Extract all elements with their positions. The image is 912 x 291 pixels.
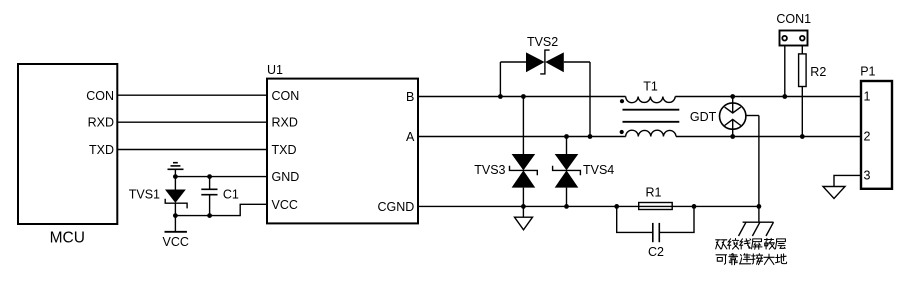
wire net A left segment xyxy=(418,136,626,138)
junction C1 top xyxy=(207,174,212,179)
TVS1 diode xyxy=(165,177,187,216)
svg-text:C1: C1 xyxy=(223,187,239,201)
svg-text:TXD: TXD xyxy=(89,143,114,157)
ground symbol under TVS3 xyxy=(515,206,533,229)
note text line 1 (drawn CJK strokes) xyxy=(716,238,786,249)
junction CON1 on B xyxy=(782,94,787,99)
capacitor C1 xyxy=(201,177,217,216)
junction TVS3 bottom on CGND xyxy=(521,204,526,209)
svg-text:MCU: MCU xyxy=(50,230,85,247)
svg-text:TVS4: TVS4 xyxy=(583,163,614,177)
TVS4 bidirectional diode xyxy=(553,137,581,207)
wire net A right segment xyxy=(676,136,861,138)
wire R2 to A xyxy=(801,87,803,137)
svg-text:RXD: RXD xyxy=(272,116,298,130)
wire CON1 pin1 to B xyxy=(784,46,786,97)
TVS2 bidirectional diode xyxy=(500,50,590,136)
junction C1 bottom xyxy=(207,213,212,218)
shield earth symbol xyxy=(739,206,774,236)
gas discharge tube GDT xyxy=(720,97,759,207)
wire net CGND xyxy=(418,205,759,207)
svg-text:P1: P1 xyxy=(860,64,875,78)
capacitor C2 xyxy=(617,206,694,242)
note text line 2 (drawn CJK strokes) xyxy=(716,254,787,265)
wire net B left segment xyxy=(418,96,626,98)
svg-text:1: 1 xyxy=(864,90,871,104)
svg-text:TVS2: TVS2 xyxy=(527,35,558,49)
resistor R2 xyxy=(799,54,807,87)
junction GDT bottom on A xyxy=(730,134,735,139)
svg-text:CON1: CON1 xyxy=(776,12,811,26)
wire GND from U1 to TVS1/C1 node xyxy=(175,176,267,178)
ground symbol at P1 pin3 xyxy=(823,187,845,199)
svg-text:U1: U1 xyxy=(267,63,283,77)
svg-text:CON: CON xyxy=(272,89,300,103)
MCU block xyxy=(18,64,117,247)
wire TXD MCU-U1 xyxy=(117,149,267,151)
junction shield earth node xyxy=(757,204,762,209)
svg-text:TVS1: TVS1 xyxy=(129,187,160,201)
junction TVS3 top on B xyxy=(521,94,526,99)
svg-text:TXD: TXD xyxy=(272,143,297,157)
svg-text:VCC: VCC xyxy=(162,235,188,249)
svg-text:TVS3: TVS3 xyxy=(474,163,505,177)
junction TVS1 bottom node xyxy=(173,213,178,218)
connector P1 xyxy=(860,64,892,188)
junction R1 right xyxy=(692,204,697,209)
junction TVS2 left on B xyxy=(498,94,503,99)
svg-text:R2: R2 xyxy=(810,65,826,79)
svg-text:GND: GND xyxy=(272,170,300,184)
svg-text:2: 2 xyxy=(864,130,871,144)
wire VCC bottom rail xyxy=(175,204,267,215)
TVS3 bidirectional diode xyxy=(510,97,538,207)
junction R2 on A xyxy=(800,134,805,139)
junction R1 left xyxy=(614,204,619,209)
wire CON1 pin2 to R2 xyxy=(801,46,803,54)
junction TVS1 top node xyxy=(173,174,178,179)
svg-text:GDT: GDT xyxy=(690,110,717,124)
svg-text:T1: T1 xyxy=(643,80,658,94)
transformer T1 xyxy=(620,80,680,137)
svg-text:CGND: CGND xyxy=(377,200,414,214)
junction TVS2 right on A xyxy=(588,134,593,139)
svg-text:VCC: VCC xyxy=(272,198,298,212)
junction TVS4 top on A xyxy=(564,134,569,139)
svg-text:B: B xyxy=(406,90,414,104)
svg-text:CON: CON xyxy=(86,89,114,103)
wire P1 pin3 to ground xyxy=(834,175,861,186)
IC U1 transceiver block xyxy=(267,63,418,223)
svg-text:R1: R1 xyxy=(646,186,662,200)
svg-text:3: 3 xyxy=(864,169,871,183)
svg-text:C2: C2 xyxy=(648,245,664,259)
earth ground symbol above TVS1 xyxy=(168,163,184,177)
junction TVS4 bottom on CGND xyxy=(564,204,569,209)
connector CON1 xyxy=(780,31,808,46)
wire CON MCU-U1 xyxy=(117,94,267,96)
power VCC symbol xyxy=(162,216,188,249)
wire net B right segment xyxy=(675,96,861,98)
wire RXD MCU-U1 xyxy=(117,121,267,123)
svg-text:A: A xyxy=(406,130,415,144)
junction GDT top on B xyxy=(730,94,735,99)
svg-text:RXD: RXD xyxy=(88,116,114,130)
resistor R1 xyxy=(639,203,673,210)
